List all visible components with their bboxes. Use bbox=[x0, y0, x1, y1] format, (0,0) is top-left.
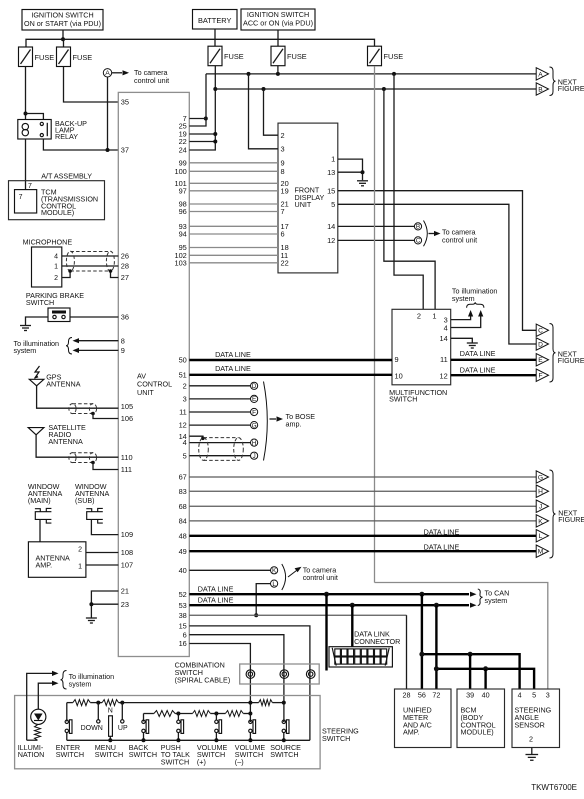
svg-text:control unit: control unit bbox=[303, 573, 338, 582]
svg-text:(–): (–) bbox=[235, 757, 244, 766]
svg-text:11: 11 bbox=[440, 355, 448, 364]
svg-text:A/T ASSEMBLY: A/T ASSEMBLY bbox=[41, 172, 92, 181]
svg-text:UNIT: UNIT bbox=[137, 388, 154, 397]
svg-text:35: 35 bbox=[121, 98, 129, 107]
svg-text:5: 5 bbox=[183, 451, 187, 460]
svg-text:K: K bbox=[272, 568, 277, 575]
svg-text:FIGURE: FIGURE bbox=[558, 357, 584, 365]
svg-text:H: H bbox=[538, 489, 543, 496]
svg-text:system: system bbox=[485, 596, 508, 605]
svg-text:9: 9 bbox=[395, 355, 399, 364]
svg-text:C: C bbox=[538, 328, 543, 335]
svg-text:MODULE): MODULE) bbox=[41, 208, 74, 217]
svg-text:UP: UP bbox=[118, 725, 128, 732]
svg-text:2: 2 bbox=[281, 131, 285, 140]
svg-text:(SPIRAL CABLE): (SPIRAL CABLE) bbox=[175, 676, 231, 685]
svg-text:SWITCH: SWITCH bbox=[322, 734, 350, 743]
svg-text:40: 40 bbox=[482, 691, 490, 700]
svg-text:ANTENNA: ANTENNA bbox=[46, 379, 81, 388]
svg-text:DATA LINE: DATA LINE bbox=[198, 596, 234, 605]
svg-text:38: 38 bbox=[179, 611, 187, 620]
svg-text:106: 106 bbox=[121, 414, 133, 423]
svg-text:ON or START (via PDU): ON or START (via PDU) bbox=[24, 19, 101, 28]
svg-text:10: 10 bbox=[395, 372, 403, 381]
svg-text:N: N bbox=[108, 707, 113, 714]
svg-text:3: 3 bbox=[546, 691, 550, 700]
svg-text:ANTENNA: ANTENNA bbox=[48, 437, 83, 446]
svg-text:J: J bbox=[539, 504, 542, 511]
svg-text:UNIT: UNIT bbox=[295, 200, 312, 209]
svg-text:16: 16 bbox=[179, 639, 187, 648]
svg-text:SENSOR: SENSOR bbox=[515, 720, 545, 729]
svg-text:FIGURE: FIGURE bbox=[558, 516, 584, 524]
svg-text:5: 5 bbox=[331, 200, 335, 209]
svg-text:26: 26 bbox=[121, 252, 129, 261]
svg-text:DATA LINE: DATA LINE bbox=[198, 585, 234, 594]
svg-text:(SUB): (SUB) bbox=[75, 496, 95, 505]
svg-text:9: 9 bbox=[121, 346, 125, 355]
svg-text:100: 100 bbox=[174, 167, 186, 176]
svg-text:5: 5 bbox=[532, 691, 536, 700]
svg-text:36: 36 bbox=[121, 313, 129, 322]
svg-text:27: 27 bbox=[121, 273, 129, 282]
svg-text:7: 7 bbox=[281, 207, 285, 216]
svg-text:11: 11 bbox=[179, 408, 187, 417]
svg-text:SWITCH: SWITCH bbox=[161, 757, 189, 766]
svg-text:15: 15 bbox=[327, 186, 335, 195]
svg-text:37: 37 bbox=[121, 146, 129, 155]
svg-text:1: 1 bbox=[78, 564, 82, 571]
svg-text:FIGURE: FIGURE bbox=[558, 85, 584, 93]
svg-text:M: M bbox=[538, 549, 544, 556]
svg-text:105: 105 bbox=[121, 402, 133, 411]
svg-text:SWITCH: SWITCH bbox=[56, 750, 84, 759]
svg-text:H: H bbox=[252, 440, 257, 447]
svg-text:14: 14 bbox=[439, 334, 447, 343]
svg-text:12: 12 bbox=[327, 236, 335, 245]
svg-text:AMP.: AMP. bbox=[403, 728, 420, 737]
svg-text:A: A bbox=[105, 70, 110, 77]
svg-text:system: system bbox=[69, 679, 92, 688]
svg-text:SWITCH: SWITCH bbox=[95, 750, 123, 759]
svg-text:13: 13 bbox=[327, 168, 335, 177]
svg-text:108: 108 bbox=[121, 548, 133, 557]
svg-text:8: 8 bbox=[121, 336, 125, 345]
svg-text:control unit: control unit bbox=[442, 236, 477, 245]
svg-text:F: F bbox=[538, 373, 542, 380]
svg-text:12: 12 bbox=[179, 421, 187, 430]
svg-text:52: 52 bbox=[179, 590, 187, 599]
svg-text:53: 53 bbox=[179, 601, 187, 610]
svg-text:28: 28 bbox=[403, 691, 411, 700]
svg-text:K: K bbox=[538, 518, 543, 525]
svg-text:system: system bbox=[14, 346, 37, 355]
svg-text:97: 97 bbox=[179, 186, 187, 195]
svg-text:110: 110 bbox=[121, 453, 133, 462]
svg-text:7: 7 bbox=[28, 183, 32, 190]
svg-text:amp.: amp. bbox=[286, 420, 302, 429]
svg-text:F: F bbox=[252, 409, 256, 416]
svg-text:DATA LINE: DATA LINE bbox=[460, 366, 496, 375]
svg-text:FUSE: FUSE bbox=[73, 53, 93, 62]
svg-text:control unit: control unit bbox=[134, 76, 169, 85]
svg-text:22: 22 bbox=[281, 258, 289, 267]
svg-text:107: 107 bbox=[121, 561, 133, 570]
svg-text:E: E bbox=[252, 396, 256, 403]
svg-text:6: 6 bbox=[281, 230, 285, 239]
svg-text:96: 96 bbox=[179, 207, 187, 216]
svg-text:DATA LINE: DATA LINE bbox=[215, 350, 251, 359]
svg-text:4: 4 bbox=[444, 324, 448, 333]
svg-text:67: 67 bbox=[179, 473, 187, 482]
svg-text:SWITCH: SWITCH bbox=[389, 395, 417, 404]
svg-text:D: D bbox=[252, 383, 257, 390]
svg-text:system: system bbox=[452, 294, 475, 303]
svg-text:103: 103 bbox=[174, 258, 186, 267]
svg-text:ACC or ON (via PDU): ACC or ON (via PDU) bbox=[243, 18, 313, 27]
svg-text:FUSE: FUSE bbox=[224, 52, 244, 61]
svg-text:4: 4 bbox=[54, 254, 58, 261]
svg-text:21: 21 bbox=[121, 587, 129, 596]
svg-text:G: G bbox=[538, 474, 543, 481]
svg-text:68: 68 bbox=[179, 502, 187, 511]
svg-text:B: B bbox=[416, 224, 420, 231]
svg-text:DATA LINE: DATA LINE bbox=[424, 542, 460, 551]
svg-text:B: B bbox=[538, 86, 543, 93]
svg-text:12: 12 bbox=[439, 372, 447, 381]
svg-text:23: 23 bbox=[121, 600, 129, 609]
svg-text:RELAY: RELAY bbox=[55, 132, 78, 141]
svg-text:15: 15 bbox=[179, 622, 187, 631]
svg-text:D: D bbox=[538, 341, 543, 348]
svg-text:2: 2 bbox=[529, 735, 533, 744]
svg-text:FUSE: FUSE bbox=[287, 52, 307, 61]
svg-text:SWITCH: SWITCH bbox=[129, 750, 157, 759]
svg-text:DOWN: DOWN bbox=[81, 725, 103, 732]
svg-text:L: L bbox=[539, 533, 543, 540]
svg-text:7: 7 bbox=[19, 194, 23, 201]
svg-text:FUSE: FUSE bbox=[384, 52, 404, 61]
svg-text:8: 8 bbox=[281, 167, 285, 176]
svg-text:BATTERY: BATTERY bbox=[198, 16, 231, 25]
svg-text:40: 40 bbox=[179, 566, 187, 575]
svg-text:(MAIN): (MAIN) bbox=[28, 496, 51, 505]
svg-text:L: L bbox=[272, 581, 276, 588]
svg-text:109: 109 bbox=[121, 530, 133, 539]
svg-text:CONNECTOR: CONNECTOR bbox=[354, 637, 400, 646]
svg-text:6: 6 bbox=[183, 630, 187, 639]
svg-text:1: 1 bbox=[331, 155, 335, 164]
svg-text:NATION: NATION bbox=[18, 750, 45, 759]
svg-text:24: 24 bbox=[179, 146, 187, 155]
svg-text:AMP.: AMP. bbox=[36, 561, 53, 570]
svg-text:3: 3 bbox=[281, 144, 285, 153]
svg-text:83: 83 bbox=[179, 487, 187, 496]
svg-text:J: J bbox=[252, 453, 255, 460]
svg-text:SWITCH: SWITCH bbox=[270, 750, 298, 759]
svg-text:DATA LINE: DATA LINE bbox=[460, 349, 496, 358]
svg-text:G: G bbox=[252, 422, 257, 429]
svg-text:4: 4 bbox=[518, 691, 522, 700]
svg-text:C: C bbox=[416, 238, 421, 245]
svg-text:SWITCH: SWITCH bbox=[26, 298, 54, 307]
svg-text:MODULE): MODULE) bbox=[461, 728, 494, 737]
svg-text:94: 94 bbox=[179, 230, 187, 239]
svg-text:72: 72 bbox=[432, 691, 440, 700]
svg-text:2: 2 bbox=[78, 547, 82, 554]
svg-text:2: 2 bbox=[183, 381, 187, 390]
svg-text:51: 51 bbox=[179, 370, 187, 379]
svg-text:TKWT6700E: TKWT6700E bbox=[531, 783, 577, 792]
svg-text:(+): (+) bbox=[197, 757, 206, 766]
svg-text:2: 2 bbox=[54, 275, 58, 282]
svg-text:FUSE: FUSE bbox=[35, 53, 55, 62]
svg-text:14: 14 bbox=[327, 222, 335, 231]
svg-text:E: E bbox=[538, 357, 543, 364]
svg-text:19: 19 bbox=[281, 186, 289, 195]
svg-text:39: 39 bbox=[466, 691, 474, 700]
svg-text:50: 50 bbox=[179, 356, 187, 365]
svg-text:48: 48 bbox=[179, 531, 187, 540]
svg-text:56: 56 bbox=[418, 691, 426, 700]
svg-text:DATA LINE: DATA LINE bbox=[215, 364, 251, 373]
svg-text:4: 4 bbox=[183, 438, 187, 447]
svg-text:DATA LINE: DATA LINE bbox=[424, 527, 460, 536]
svg-text:111: 111 bbox=[121, 465, 132, 474]
svg-text:1: 1 bbox=[432, 312, 436, 321]
svg-text:2: 2 bbox=[417, 312, 421, 321]
svg-text:1: 1 bbox=[54, 264, 58, 271]
svg-text:28: 28 bbox=[121, 262, 129, 271]
svg-text:3: 3 bbox=[183, 395, 187, 404]
svg-text:MICROPHONE: MICROPHONE bbox=[23, 238, 73, 247]
svg-text:A: A bbox=[538, 71, 543, 78]
svg-text:49: 49 bbox=[179, 547, 187, 556]
svg-text:84: 84 bbox=[179, 517, 187, 526]
